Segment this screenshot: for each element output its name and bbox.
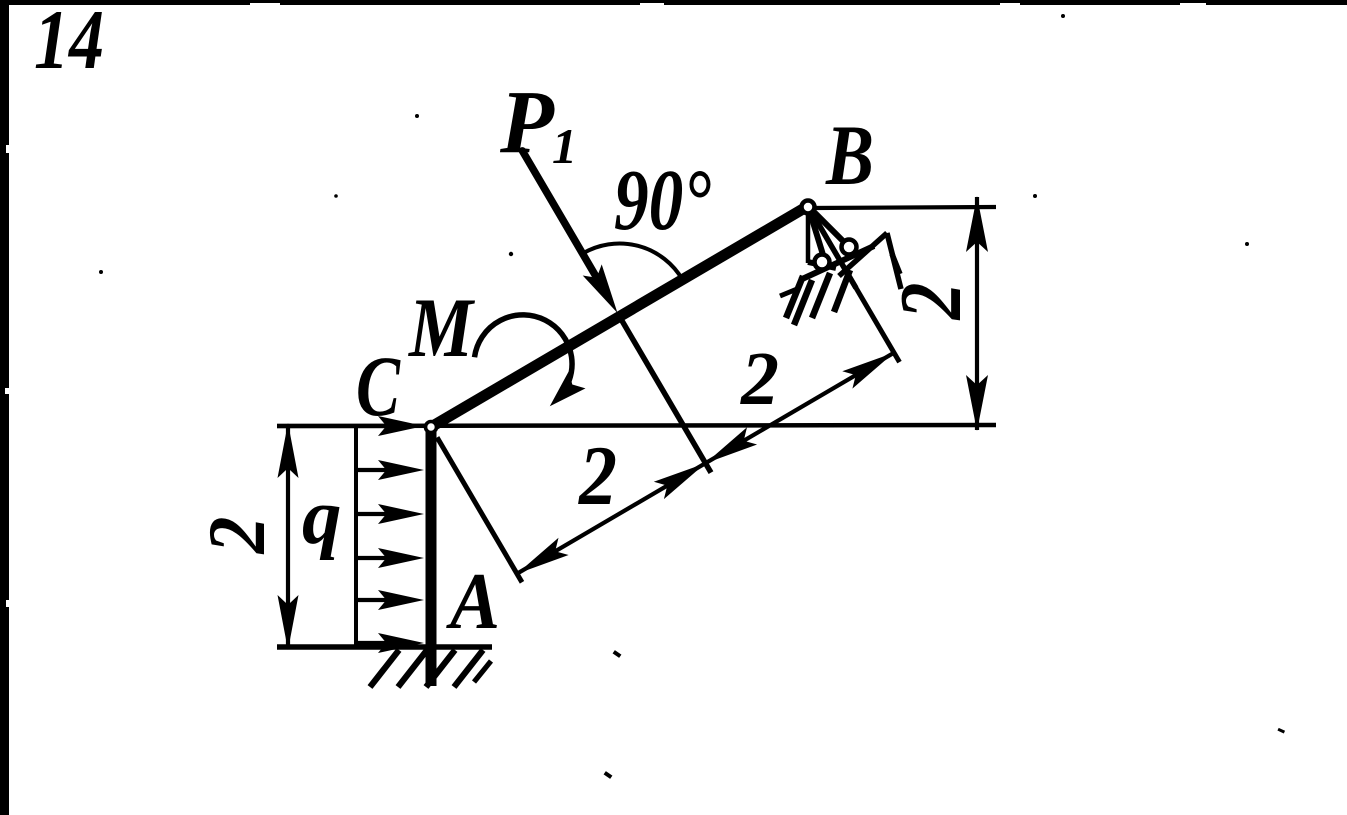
label 90 degrees [614, 151, 711, 248]
hatching at support A [370, 650, 491, 687]
svg-text:C: C [356, 338, 401, 434]
distributed load q arrows [277, 416, 424, 653]
svg-text:B: B [825, 107, 874, 203]
distributed load q base line [354, 426, 358, 646]
pin B [802, 201, 815, 214]
inclined bar CB [431, 206, 808, 427]
svg-text:P: P [499, 73, 555, 172]
inclined dimension label 2 (first segment) [577, 429, 617, 523]
horizontal extension line from B [812, 207, 996, 208]
svg-text:A: A [445, 558, 500, 646]
extension line from B (perpendicular to bar) [814, 216, 899, 362]
column bar CA [426, 429, 437, 686]
label q [302, 474, 342, 561]
inclined dimension line segment C-mid (2) [517, 463, 706, 574]
label C [356, 338, 401, 434]
left black border strip [0, 0, 9, 815]
svg-text:2: 2 [740, 337, 779, 421]
right dimension line (2) [966, 196, 988, 431]
support B roller circles [815, 240, 857, 270]
svg-text:90°: 90° [614, 151, 711, 248]
inclined dimension line segment mid-B (2) [706, 353, 895, 464]
right dimension label 2 (rotated) [883, 283, 980, 322]
svg-text:2: 2 [191, 517, 282, 555]
pin C [426, 422, 437, 433]
svg-text:q: q [302, 474, 342, 561]
moment M arc with arrowhead [475, 315, 586, 406]
label P1 [499, 73, 577, 174]
svg-text:14: 14 [34, 0, 104, 87]
label A [445, 558, 500, 646]
svg-text:M: M [407, 281, 475, 375]
top black border strip [0, 0, 1347, 5]
horizontal reference line through C [277, 425, 996, 426]
force P1 arrow [522, 151, 617, 313]
hatching at support B [780, 233, 901, 325]
svg-text:2: 2 [577, 429, 617, 523]
extension line through P1 application point [620, 317, 712, 473]
inclined dimension label 2 (second segment) [740, 337, 779, 421]
extension line from C (perpendicular to bar) [437, 437, 522, 582]
90 degree angle arc [583, 243, 683, 279]
roller link support at B [800, 206, 874, 280]
svg-text:1: 1 [552, 118, 577, 174]
svg-text:2: 2 [883, 283, 980, 322]
page number 14 [34, 0, 104, 87]
ground line at support A [277, 644, 492, 650]
label B [825, 107, 874, 203]
label M [407, 281, 475, 375]
left dimension label 2 (rotated) [191, 517, 282, 555]
left dimension line (2) [278, 423, 299, 650]
